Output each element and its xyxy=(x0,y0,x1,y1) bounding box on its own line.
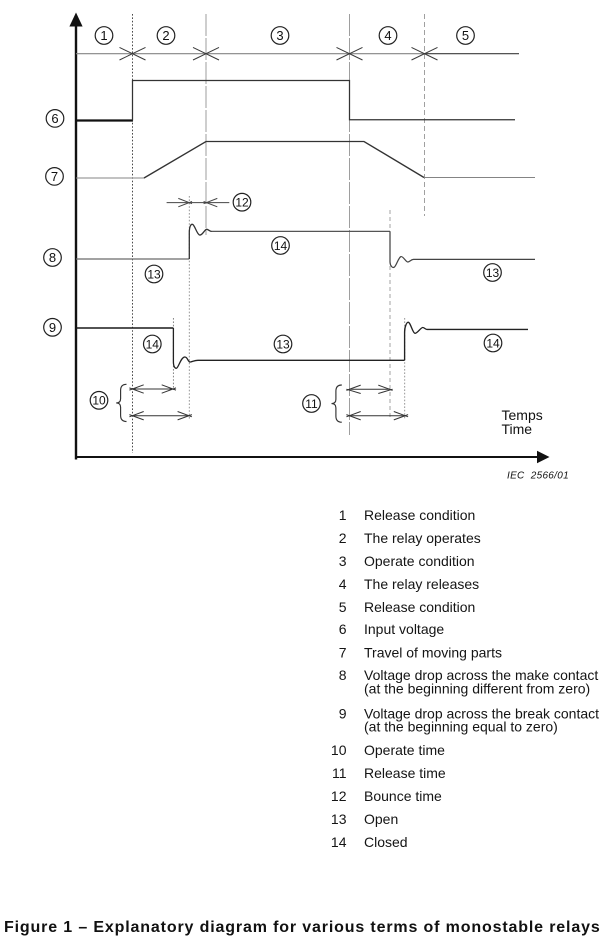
svg-text:11: 11 xyxy=(305,397,318,411)
vertical reference line v3 xyxy=(349,14,351,435)
circled 8 xyxy=(44,249,62,267)
circled 7 xyxy=(46,168,64,186)
circled 6 xyxy=(46,110,64,128)
waveform 7: travel of moving parts xyxy=(76,142,535,179)
svg-text:Operate time: Operate time xyxy=(364,742,445,758)
svg-text:Travel of moving parts: Travel of moving parts xyxy=(364,645,502,661)
svg-text:7: 7 xyxy=(339,645,347,661)
svg-text:3: 3 xyxy=(339,553,347,569)
brace for 11 xyxy=(332,385,342,422)
circled 11 xyxy=(303,395,321,413)
circled 14 mid-left xyxy=(272,237,290,255)
svg-text:6: 6 xyxy=(339,621,347,637)
svg-text:11: 11 xyxy=(332,765,347,781)
svg-text:7: 7 xyxy=(51,169,58,184)
svg-text:13: 13 xyxy=(486,266,500,280)
circled 14 right xyxy=(484,334,502,352)
boundary cross at v4 xyxy=(412,47,438,60)
circled 3 xyxy=(271,27,289,45)
circled 2 xyxy=(157,27,175,45)
circled 1 xyxy=(95,27,113,45)
svg-text:14: 14 xyxy=(274,239,288,253)
svg-text:10: 10 xyxy=(92,394,106,408)
vertical reference line v2 xyxy=(205,14,207,235)
svg-text:Time: Time xyxy=(502,421,533,437)
svg-text:4: 4 xyxy=(339,576,347,592)
svg-text:5: 5 xyxy=(462,28,469,43)
vertical reference line at make-contact closing xyxy=(188,196,190,419)
svg-text:4: 4 xyxy=(384,28,391,43)
svg-text:5: 5 xyxy=(339,599,347,615)
label Temps / Time xyxy=(502,407,543,437)
svg-text:13: 13 xyxy=(331,811,347,827)
boundary cross at v2 xyxy=(193,47,219,60)
svg-text:Closed: Closed xyxy=(364,834,408,850)
dimension 10b arrow xyxy=(129,412,192,420)
circled 9 xyxy=(44,319,62,337)
svg-text:The relay operates: The relay operates xyxy=(364,530,481,546)
svg-text:14: 14 xyxy=(331,834,347,850)
svg-text:6: 6 xyxy=(51,111,58,126)
svg-text:Input voltage: Input voltage xyxy=(364,621,444,637)
svg-text:10: 10 xyxy=(331,742,347,758)
svg-text:Release condition: Release condition xyxy=(364,507,475,523)
dimension 11a arrow xyxy=(346,385,392,393)
svg-text:2: 2 xyxy=(339,530,347,546)
svg-text:(at the beginning equal to zer: (at the beginning equal to zero) xyxy=(364,719,558,735)
circled 13 mid-left xyxy=(145,265,163,283)
circled 10 xyxy=(90,392,108,410)
vertical reference line v1 xyxy=(132,14,134,453)
waveform 9: voltage drop across break contact xyxy=(76,322,528,368)
interval boundary line (regions 1-5) xyxy=(76,53,425,55)
svg-text:1: 1 xyxy=(339,507,347,523)
circled 5 xyxy=(457,27,475,45)
dimension 10a arrow xyxy=(129,385,176,393)
svg-text:13: 13 xyxy=(276,337,290,351)
circled 12 xyxy=(233,193,251,211)
svg-text:8: 8 xyxy=(49,250,56,265)
svg-text:14: 14 xyxy=(146,337,160,351)
vertical reference line at make-contact opening xyxy=(389,210,391,419)
y-axis xyxy=(69,13,82,460)
dimension 11b arrow xyxy=(346,412,408,420)
circled 4 xyxy=(379,27,397,45)
boundary cross at v1 xyxy=(120,47,146,60)
legend xyxy=(331,507,599,850)
vertical reference line at break-contact opening xyxy=(172,318,174,390)
boundary cross at v3 xyxy=(337,47,363,60)
circled 13 lower-mid xyxy=(274,335,292,353)
waveform 8: voltage drop across make contact xyxy=(76,224,535,267)
svg-text:14: 14 xyxy=(486,336,500,350)
waveform 6: input voltage xyxy=(76,81,515,121)
svg-text:Open: Open xyxy=(364,811,398,827)
circled 14 lower-left xyxy=(144,335,162,353)
svg-text:The relay releases: The relay releases xyxy=(364,576,479,592)
circled 13 right xyxy=(484,264,502,282)
x-axis (time axis) xyxy=(75,451,550,463)
svg-text:3: 3 xyxy=(276,28,283,43)
dimension 12 arrow line xyxy=(167,198,230,206)
svg-text:9: 9 xyxy=(49,320,56,335)
svg-text:8: 8 xyxy=(339,667,347,683)
svg-text:Figure 1 – Explanatory diagram: Figure 1 – Explanatory diagram for vario… xyxy=(4,919,601,936)
svg-text:13: 13 xyxy=(147,267,161,281)
svg-text:Release condition: Release condition xyxy=(364,599,475,615)
svg-text:Operate condition: Operate condition xyxy=(364,553,475,569)
vertical reference line v4 xyxy=(424,14,426,216)
svg-text:Bounce time: Bounce time xyxy=(364,788,442,804)
svg-text:9: 9 xyxy=(339,706,347,722)
svg-text:Release time: Release time xyxy=(364,765,446,781)
svg-text:12: 12 xyxy=(331,788,347,804)
svg-text:2: 2 xyxy=(162,28,169,43)
svg-text:IEC 2566/01: IEC 2566/01 xyxy=(507,471,569,482)
brace for 10 xyxy=(116,384,126,421)
vertical reference line at break-contact closing xyxy=(404,318,406,419)
svg-text:1: 1 xyxy=(100,28,107,43)
svg-text:12: 12 xyxy=(235,196,249,210)
svg-text:(at the beginning different fr: (at the beginning different from zero) xyxy=(364,681,590,697)
